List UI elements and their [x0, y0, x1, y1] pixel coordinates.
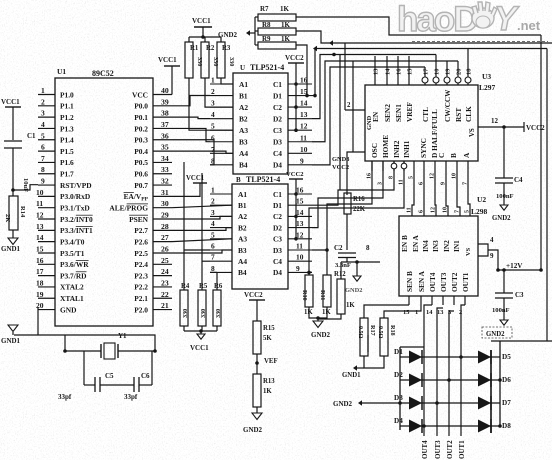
U1 right pins 40-21 with labels [109, 86, 172, 314]
svg-text:ALE/PROG: ALE/PROG [109, 204, 148, 213]
svg-text:.net: .net [517, 18, 541, 33]
svg-text:SEN B: SEN B [405, 271, 414, 292]
svg-text:VS: VS [465, 247, 472, 256]
svg-text:330: 330 [215, 309, 222, 318]
label VCC2 near U3 [332, 164, 349, 171]
svg-text:13: 13 [300, 110, 308, 119]
svg-text:U1: U1 [57, 67, 66, 76]
svg-text:D1: D1 [394, 348, 403, 356]
svg-text:VCC2: VCC2 [285, 54, 304, 62]
svg-text:B2: B2 [239, 114, 248, 123]
svg-text:5: 5 [41, 131, 45, 140]
svg-text:33pf: 33pf [124, 393, 138, 401]
svg-text:1K: 1K [263, 388, 272, 395]
svg-text:EN B: EN B [400, 235, 409, 252]
wire PSEN to TLP2 A2 [172, 216, 232, 219]
resistor R10 1K [301, 275, 313, 316]
svg-text:3: 3 [41, 109, 45, 118]
svg-text:11: 11 [407, 207, 413, 213]
ground GND2 (diode bus) [333, 400, 400, 408]
svg-text:P1.3: P1.3 [60, 124, 74, 133]
capacitor C5 33pf [58, 351, 114, 401]
U3 bottom pin names [366, 115, 476, 158]
svg-text:12: 12 [300, 122, 308, 131]
svg-text:P0.5: P0.5 [134, 158, 148, 167]
svg-text:R2: R2 [206, 45, 215, 52]
svg-text:VCC1: VCC1 [192, 17, 211, 25]
svg-text:R12: R12 [334, 271, 346, 278]
svg-text:9: 9 [41, 177, 45, 186]
svg-text:16: 16 [367, 173, 373, 179]
svg-text:P0.1: P0.1 [134, 113, 148, 122]
svg-text:330: 330 [212, 57, 219, 66]
svg-text:TLP521-4: TLP521-4 [246, 175, 280, 184]
svg-text:VEF: VEF [264, 358, 278, 365]
diode grid junction dots [398, 355, 502, 428]
svg-text:B2: B2 [238, 223, 247, 232]
label U3 [482, 72, 491, 81]
svg-text:R4: R4 [181, 283, 190, 290]
svg-text:OUT4: OUT4 [421, 440, 429, 459]
svg-text:D8: D8 [502, 422, 511, 430]
resistor R15 5K [253, 321, 275, 363]
TLP1 left pins A/B 1-8 [210, 76, 248, 170]
svg-text:330: 330 [228, 57, 235, 66]
wire TLP2 D2 to U3 [312, 161, 383, 228]
label GND3 near U3 [332, 156, 349, 163]
svg-text:VCC1: VCC1 [190, 344, 209, 352]
svg-text:L298: L298 [471, 207, 488, 216]
U3 bottom pin stubs [372, 161, 468, 171]
svg-text:C3: C3 [273, 235, 282, 244]
svg-text:A3: A3 [239, 126, 248, 135]
ground GND2 (below R13) [243, 413, 263, 434]
svg-text:D3: D3 [394, 394, 403, 402]
svg-text:38: 38 [161, 109, 169, 118]
resistor R14 [4, 190, 26, 238]
svg-text:22: 22 [161, 290, 169, 299]
svg-text:39: 39 [161, 97, 169, 106]
svg-text:C: C [437, 153, 446, 158]
resistor R7 1K [258, 5, 296, 21]
svg-text:20: 20 [456, 69, 463, 76]
svg-text:24: 24 [161, 267, 169, 276]
svg-text:XTAL1: XTAL1 [60, 294, 84, 303]
svg-text:A2: A2 [238, 212, 247, 221]
svg-text:B: B [449, 153, 458, 158]
diode D1 [409, 350, 422, 364]
svg-text:21: 21 [161, 301, 169, 310]
svg-text:28: 28 [161, 222, 169, 231]
diode D7 [478, 396, 491, 410]
svg-text:11: 11 [36, 199, 43, 208]
svg-text:10: 10 [296, 253, 304, 262]
label B TLP521-4 (lower) [236, 175, 280, 184]
svg-text:22K: 22K [353, 206, 366, 213]
svg-text:C6: C6 [141, 372, 150, 380]
label U TLP521-4 (upper) [240, 63, 284, 72]
svg-text:0.5Ω: 0.5Ω [357, 326, 363, 339]
svg-text:1: 1 [415, 309, 418, 316]
svg-text:SEN A: SEN A [417, 270, 426, 292]
svg-text:R15: R15 [263, 325, 275, 332]
svg-text:VCC: VCC [132, 90, 148, 99]
svg-text:INH2: INH2 [392, 140, 401, 158]
wire P2.7 to TLP2 B2 [172, 228, 232, 231]
svg-text:5K: 5K [263, 335, 272, 342]
wire OUT1 to column [461, 305, 465, 436]
svg-text:B4: B4 [239, 161, 248, 170]
svg-text:P2.6: P2.6 [134, 237, 148, 246]
U2 bottom pin stubs and numbers [403, 296, 465, 316]
svg-text:20: 20 [36, 301, 44, 310]
IC U2 L298 body [399, 216, 478, 296]
svg-text:OUT4: OUT4 [428, 272, 437, 292]
ground GND2 (C4) [492, 205, 511, 222]
svg-text:36: 36 [161, 131, 169, 140]
svg-text:P2.0: P2.0 [134, 305, 148, 314]
U3 left stub pin2 [345, 43, 365, 110]
label L298 [471, 207, 488, 216]
svg-text:3: 3 [211, 99, 215, 108]
svg-text:GND2: GND2 [218, 31, 238, 39]
svg-text:C4: C4 [514, 176, 523, 184]
wire P2.6 to TLP2 A3 [172, 239, 232, 242]
power VCC1 above U1 [158, 56, 180, 95]
svg-text:SEN1: SEN1 [394, 104, 403, 122]
crystal Y1 [63, 332, 157, 359]
svg-text:D4: D4 [273, 161, 282, 170]
svg-text:Y1: Y1 [118, 332, 127, 340]
ground GND2 (below R10/R11) [311, 321, 331, 339]
svg-text:C1: C1 [273, 190, 282, 199]
U3 top pin names [371, 89, 473, 158]
svg-text:OUT1: OUT1 [461, 272, 470, 292]
svg-text:GND1: GND1 [1, 245, 21, 253]
wire TLP2 D4 to R10 and U3 [307, 161, 404, 275]
U2 top pin numbers [407, 207, 471, 213]
svg-text:2K: 2K [4, 214, 11, 222]
svg-text:7: 7 [41, 154, 45, 163]
resistor R11 1K [319, 275, 331, 316]
svg-text:37: 37 [161, 120, 169, 129]
svg-text:P3.7/RD: P3.7/RD [60, 271, 87, 280]
svg-text:5: 5 [211, 230, 215, 239]
wire R6 up to TLP2 B4 [210, 272, 217, 290]
svg-text:TLP521-4: TLP521-4 [250, 63, 284, 72]
svg-text:CLK: CLK [464, 106, 473, 122]
svg-text:P3.0/RxD: P3.0/RxD [60, 192, 90, 201]
wire P0.1 to B2 [172, 117, 210, 118]
diode D5 [478, 350, 491, 364]
resistor R16 22K [344, 193, 366, 250]
svg-text:P0.3: P0.3 [134, 136, 148, 145]
svg-text:P1.2: P1.2 [60, 113, 74, 122]
wire SENA to R18 [384, 305, 421, 318]
node RST junction [11, 185, 38, 192]
svg-text:14: 14 [385, 68, 392, 75]
svg-text:CW/CCW: CW/CCW [443, 89, 452, 122]
resistor R1 330 [185, 37, 203, 82]
diode D4 [409, 419, 422, 433]
watermark haoDIY.net [397, 0, 548, 42]
svg-text:8: 8 [389, 176, 395, 179]
svg-text:A4: A4 [238, 257, 247, 266]
svg-text:15: 15 [36, 244, 44, 253]
svg-text:P0.7: P0.7 [134, 181, 148, 190]
svg-text:D7: D7 [502, 399, 511, 407]
svg-text:12: 12 [491, 117, 499, 125]
svg-text:A1: A1 [239, 80, 248, 89]
svg-text:D6: D6 [502, 376, 511, 384]
svg-text:XTAL2: XTAL2 [60, 283, 84, 292]
svg-text:C2: C2 [273, 212, 282, 221]
capacitor C4 100nF [495, 127, 523, 205]
power VCC1 below (arrow) [190, 334, 209, 352]
svg-text:U3: U3 [482, 72, 491, 81]
wire ALE to TLP2 B1 [172, 205, 232, 208]
wire right vertical bus A [539, 35, 543, 272]
svg-text:P2.5: P2.5 [134, 249, 148, 258]
U2 right pins 4 and 9 [478, 236, 498, 270]
wire GND rail y335 [14, 335, 155, 351]
wire U1 GND pin down [37, 308, 39, 335]
svg-text:P0.0: P0.0 [134, 102, 148, 111]
svg-text:C4: C4 [273, 257, 282, 266]
resistor R17 0.5 [357, 318, 376, 356]
svg-text:89C52: 89C52 [92, 69, 114, 78]
svg-text:P2.3: P2.3 [134, 271, 148, 280]
svg-text:C1: C1 [27, 132, 36, 140]
svg-text:14: 14 [300, 99, 308, 108]
resistor R2 330 [201, 37, 219, 82]
labels D5-D8 [502, 353, 511, 430]
wire C2 node line [341, 260, 380, 276]
node VEF [255, 358, 277, 365]
svg-text:5: 5 [211, 122, 215, 131]
svg-text:17: 17 [423, 68, 430, 75]
svg-text:RST: RST [454, 108, 463, 122]
svg-text:IN4: IN4 [421, 240, 430, 252]
svg-text:10: 10 [300, 145, 308, 154]
svg-text:25: 25 [161, 256, 169, 265]
svg-text:GND: GND [366, 115, 373, 130]
wire long vertical A [339, 55, 341, 191]
wire diode rows [400, 357, 500, 426]
svg-text:23: 23 [161, 278, 169, 287]
svg-text:33: 33 [161, 165, 169, 174]
wire R5 up to TLP2 A4 [202, 173, 210, 290]
wire XTAL1 to crystal [64, 335, 66, 351]
svg-text:P3.4/T0: P3.4/T0 [60, 237, 85, 246]
wire R17 R18 bottoms to GND1 [356, 356, 384, 368]
svg-text:26: 26 [161, 244, 169, 253]
label U2 [477, 195, 486, 204]
U2 top pin names [400, 234, 461, 252]
svg-text:B1: B1 [238, 201, 247, 210]
TLP1 right pins C/D 16-9 [273, 76, 312, 170]
ground GND1 (left) [1, 238, 21, 253]
wire SENB to R17 [364, 305, 409, 318]
svg-text:9: 9 [300, 156, 304, 165]
wire U3 VS pin12 to VCC2 [478, 117, 524, 129]
svg-text:40: 40 [161, 86, 169, 95]
svg-text:VCC1: VCC1 [158, 56, 177, 64]
svg-text:GND2: GND2 [333, 400, 353, 408]
svg-text:P0.6: P0.6 [134, 170, 148, 179]
svg-text:1: 1 [41, 86, 45, 95]
svg-text:10: 10 [443, 207, 449, 213]
svg-text:10: 10 [36, 188, 44, 197]
svg-text:2: 2 [41, 97, 45, 106]
wire P0.4 to A4 [172, 151, 233, 153]
svg-text:B3: B3 [239, 138, 248, 147]
svg-text:B1: B1 [239, 91, 248, 100]
wire R9 to TLP1 D1 line [296, 45, 309, 97]
IC U2 TLP521-4 (upper) body [233, 73, 288, 174]
wire R4 up to TLP2 B3 [184, 162, 210, 290]
svg-text:11: 11 [300, 133, 307, 142]
svg-text:P1.7: P1.7 [60, 170, 74, 179]
svg-text:EN A: EN A [411, 234, 420, 252]
svg-text:P3.3/INT1: P3.3/INT1 [60, 226, 93, 235]
wire R8 bus [296, 31, 552, 46]
wire R7 top bus [296, 17, 541, 35]
svg-text:34: 34 [161, 154, 169, 163]
wire TLP1 D2 bus [312, 53, 436, 119]
svg-text:P3.6/WR: P3.6/WR [60, 260, 89, 269]
svg-text:P2.2: P2.2 [134, 283, 148, 292]
svg-text:OUT2: OUT2 [446, 440, 454, 459]
svg-text:SEN2: SEN2 [383, 104, 392, 122]
svg-text:3.3nF: 3.3nF [335, 262, 351, 269]
svg-text:33pf: 33pf [58, 393, 72, 401]
wire R3 to A1 [221, 82, 233, 84]
svg-text:4: 4 [211, 110, 215, 119]
svg-text:IN2: IN2 [442, 240, 451, 252]
svg-text:GND2: GND2 [311, 331, 331, 339]
U3 top pin numbers [373, 68, 473, 75]
wire U3 OSC to R16 [347, 152, 365, 195]
svg-text:A: A [462, 152, 471, 158]
capacitor C1 [4, 132, 36, 192]
svg-text:OUT2: OUT2 [450, 272, 459, 292]
power VCC2 below TLP2 [244, 291, 265, 321]
labels D1-D4 [394, 348, 403, 425]
power VCC1 top (R1-R3) [189, 17, 221, 39]
wire P2.5 to TLP2 B3 [172, 250, 232, 253]
wire P0.3 to B4 [172, 140, 214, 165]
svg-text:D4: D4 [273, 268, 282, 277]
svg-text:8: 8 [41, 165, 45, 174]
svg-text:19: 19 [36, 290, 44, 299]
svg-text:10: 10 [434, 69, 441, 76]
svg-text:15: 15 [407, 68, 414, 75]
labels OUT columns [421, 440, 466, 459]
resistor R6 330 [213, 283, 223, 331]
svg-text:SYNC: SYNC [419, 138, 428, 158]
svg-text:R18: R18 [389, 325, 396, 336]
svg-text:8: 8 [211, 264, 215, 273]
wire OUT2 to column [449, 311, 454, 436]
wire R1 to A3 [189, 82, 233, 130]
power VCC2 above TLP2 outputs [286, 171, 304, 241]
wire diode anode bus left [400, 347, 424, 430]
svg-text:6: 6 [41, 143, 45, 152]
svg-text:P2.1: P2.1 [134, 294, 148, 303]
resistor R12 1K [318, 262, 355, 319]
svg-text:7: 7 [455, 210, 461, 213]
svg-text:D1: D1 [273, 201, 282, 210]
label 89C52 [92, 69, 114, 78]
svg-text:11: 11 [296, 242, 303, 251]
svg-text:P3.1/TxD: P3.1/TxD [60, 204, 90, 213]
svg-text:GND: GND [60, 305, 76, 314]
wire U3 pin to U2 IN jogs [412, 171, 470, 216]
wire TLP2 D3 to R11 and U3 [312, 161, 372, 275]
svg-text:P2.7: P2.7 [134, 226, 148, 235]
svg-text:OSC: OSC [370, 143, 379, 158]
svg-text:A1: A1 [238, 190, 247, 199]
svg-text:2: 2 [347, 102, 351, 109]
svg-text:P1.1: P1.1 [60, 102, 74, 111]
wire R4-R6 commons to VCC1 [184, 329, 217, 334]
svg-text:R17: R17 [369, 325, 376, 336]
svg-text:R16: R16 [353, 196, 365, 203]
svg-text:R7: R7 [260, 5, 269, 13]
wire TLP1 D3 bus [312, 61, 458, 142]
svg-text:3: 3 [211, 208, 215, 217]
svg-text:R14: R14 [19, 206, 26, 218]
svg-text:R3: R3 [222, 45, 231, 52]
svg-text:13: 13 [373, 68, 380, 75]
svg-text:HOME: HOME [381, 135, 390, 158]
svg-text:haoD: haoD [397, 0, 477, 39]
svg-text:C1: C1 [273, 80, 282, 89]
svg-text:6: 6 [419, 210, 425, 213]
svg-text:GND1: GND1 [342, 372, 361, 379]
svg-text:C5: C5 [105, 372, 114, 380]
wire long vertical B [352, 61, 354, 152]
svg-text:GND2: GND2 [486, 331, 505, 338]
svg-text:11: 11 [399, 179, 405, 185]
U3 top pin stubs with circles [375, 49, 471, 86]
svg-text:P1.0: P1.0 [60, 90, 74, 99]
svg-text:VREF: VREF [405, 102, 414, 122]
TLP2 left pins A/B 1-8 [210, 186, 247, 278]
svg-text:GND1: GND1 [1, 337, 21, 345]
svg-text:VCC2: VCC2 [286, 171, 304, 178]
IC U1 89C52 body [55, 78, 153, 326]
wire TLP1 D4 bus [312, 67, 425, 165]
wire TLP2 D1 to U3 [312, 161, 394, 205]
svg-text:P3.5/T1: P3.5/T1 [60, 249, 85, 258]
diode D2 [409, 373, 422, 387]
resistor R9 1K [258, 35, 296, 49]
wire P0.2 to B3 [172, 128, 210, 141]
svg-text:P3.2/INT0: P3.2/INT0 [60, 215, 93, 224]
svg-text:C2: C2 [273, 103, 282, 112]
power VCC1 at EA/Vpp [172, 175, 207, 196]
svg-text:19: 19 [445, 68, 452, 75]
svg-text:PSEN: PSEN [129, 215, 149, 224]
svg-text:1: 1 [211, 186, 215, 195]
svg-text:R11: R11 [319, 290, 326, 300]
resistor R4 330 [180, 283, 190, 331]
svg-text:32: 32 [161, 177, 169, 186]
svg-text:+12V: +12V [506, 262, 523, 270]
capacitor C3 100nF [492, 268, 524, 320]
